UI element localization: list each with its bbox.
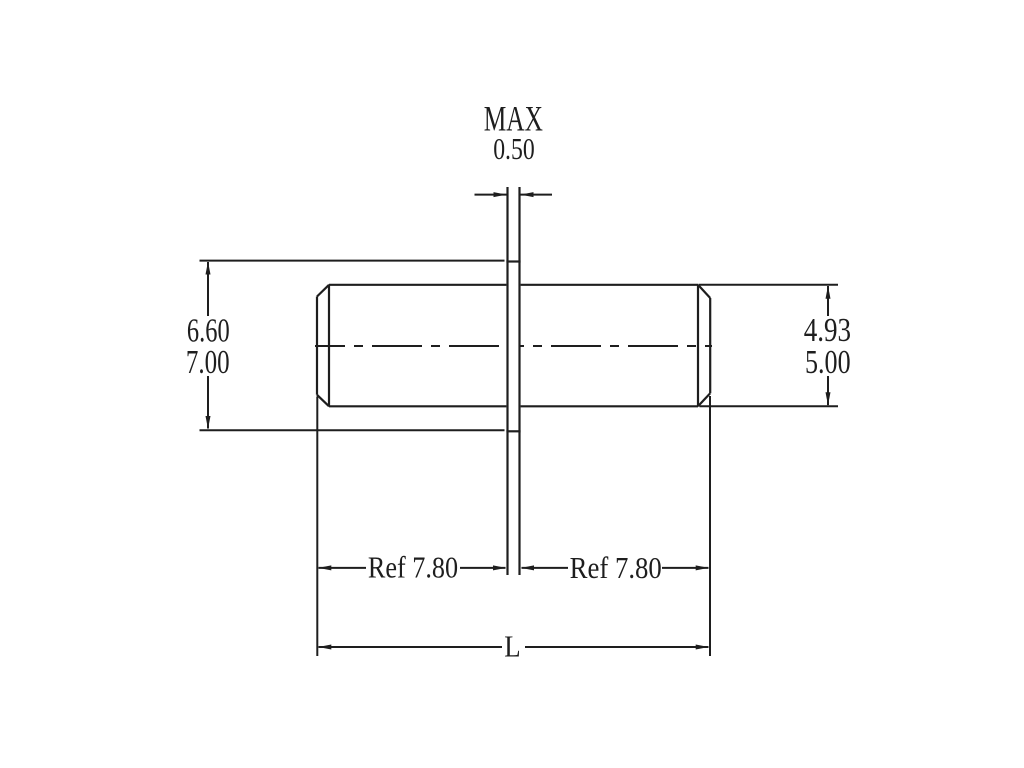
- pin right end face: [697, 285, 699, 407]
- flange top edge: [506, 260, 520, 262]
- arrowhead Ref right dim, right (points right): [696, 565, 709, 570]
- pin body bottom line (right of flange): [521, 405, 698, 407]
- extension line 6.60/7.00 bottom: [200, 429, 505, 431]
- pin left chamfer edge: [316, 297, 318, 395]
- pin right chamfer edge: [709, 298, 711, 393]
- svg-text:L: L: [504, 629, 520, 664]
- flange right side / extension line: [518, 187, 520, 575]
- arrowhead L left (points left): [318, 645, 331, 650]
- dimension line L left segment: [319, 646, 503, 648]
- svg-text:Ref 7.80: Ref 7.80: [570, 550, 662, 585]
- dimension line L right segment: [525, 646, 709, 648]
- dimension line Ref 7.80 left, right segment: [460, 567, 506, 569]
- arrowhead MAX left (points right): [494, 192, 507, 197]
- dimension line 4.93/5.00 upper segment: [827, 286, 829, 316]
- pin right chamfer top diagonal: [698, 285, 710, 298]
- arrowhead L right (points right): [696, 645, 709, 650]
- extension line right outer (pin right end): [709, 396, 711, 656]
- arrowhead Ref left dim, left (points left): [318, 565, 331, 570]
- dimension line Ref 7.80 right, left segment: [522, 567, 569, 569]
- dimension line 6.60/7.00 lower segment: [207, 376, 209, 429]
- pin left chamfer bottom diagonal: [317, 395, 329, 407]
- pin body top line (right of flange): [521, 284, 698, 286]
- dimension line 6.60/7.00 upper segment: [207, 262, 209, 316]
- arrowhead Ref right dim, left (points left): [521, 565, 534, 570]
- svg-text:7.00: 7.00: [186, 344, 230, 381]
- pin right chamfer bottom diagonal: [698, 393, 710, 406]
- arrowhead 6.60/7.00 down: [206, 416, 211, 429]
- arrowhead MAX right (points left): [521, 192, 534, 197]
- arrowhead Ref left dim, right (points right): [493, 565, 506, 570]
- dimension line MAX 0.50 left segment: [475, 194, 507, 196]
- svg-text:Ref 7.80: Ref 7.80: [368, 549, 458, 584]
- extension line 6.60/7.00 top: [200, 260, 505, 262]
- flange bottom edge: [506, 430, 520, 432]
- extension line left outer (pin left end): [316, 397, 318, 657]
- dimension line Ref 7.80 right, right segment: [662, 567, 709, 569]
- pin body top line (left of flange): [329, 284, 506, 286]
- svg-text:0.50: 0.50: [493, 131, 535, 166]
- pin body bottom line (left of flange): [329, 405, 506, 407]
- arrowhead 4.93/5.00 down: [826, 392, 831, 405]
- arrowhead 6.60/7.00 up: [206, 262, 211, 275]
- centerline right half: [520, 345, 713, 347]
- centerline left half: [315, 345, 508, 347]
- pin left chamfer top diagonal: [317, 285, 329, 297]
- flange left side / extension line: [506, 187, 508, 575]
- dimension line Ref 7.80 left, left segment: [319, 567, 367, 569]
- svg-text:5.00: 5.00: [805, 344, 851, 381]
- arrowhead 4.93/5.00 up: [826, 286, 831, 299]
- dimension line MAX 0.50 right segment: [521, 194, 553, 196]
- extension line 4.93/5.00 top: [699, 284, 839, 286]
- dimension line 4.93/5.00 lower segment: [827, 376, 829, 405]
- extension line 4.93/5.00 bottom: [700, 405, 839, 407]
- pin left end face: [328, 285, 330, 407]
